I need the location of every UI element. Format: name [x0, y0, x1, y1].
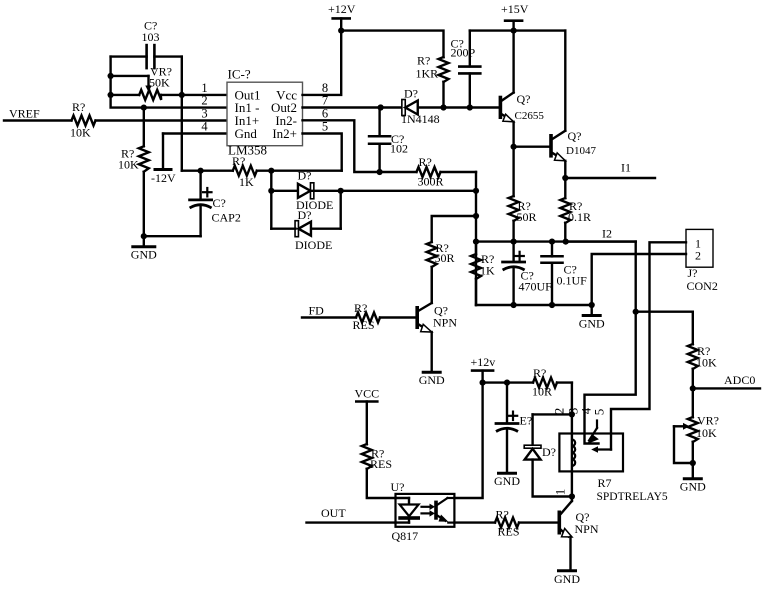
svg-text:DIODE: DIODE — [295, 238, 332, 252]
svg-text:0.1UF: 0.1UF — [557, 274, 588, 288]
connector J? CON2 — [686, 229, 718, 293]
svg-text:1N4148: 1N4148 — [401, 112, 440, 126]
resistor R? 1K (LM358 out) — [182, 154, 342, 189]
wire Out2 pin7 — [303, 106, 404, 108]
svg-text:VREF: VREF — [9, 107, 40, 121]
pin numbers 1-4 — [201, 81, 208, 134]
svg-text:10R: 10R — [532, 385, 552, 399]
junction dot +15V — [510, 28, 516, 34]
svg-text:50R: 50R — [435, 251, 455, 265]
junction dot CAP2 return — [141, 233, 147, 239]
svg-text:103: 103 — [142, 30, 160, 44]
resistor R? 0.1R — [560, 178, 591, 242]
resistor R? RES (FD) — [353, 301, 416, 332]
junction dot I1 — [562, 175, 568, 181]
svg-text:RES: RES — [498, 525, 520, 539]
svg-text:50K: 50K — [149, 76, 170, 90]
wire I2 vertical — [585, 242, 636, 444]
wire coil bottom — [571, 471, 573, 496]
node ADC0 — [693, 373, 760, 388]
svg-text:+15V: +15V — [501, 2, 529, 16]
wire FD collector — [431, 267, 433, 303]
svg-text:-12V: -12V — [151, 171, 176, 185]
svg-text:RES: RES — [370, 457, 392, 471]
wire +12v node — [483, 381, 533, 383]
svg-text:Q817: Q817 — [392, 529, 419, 543]
capacitor E? (electrolytic) — [496, 383, 532, 472]
resistor R? 10K (VREF series) — [4, 100, 227, 140]
svg-text:NPN: NPN — [575, 522, 599, 536]
svg-text:D?: D? — [298, 169, 312, 183]
ground GND (E cap) — [499, 472, 516, 475]
transistor Q? NPN (relay driver) — [558, 497, 599, 570]
diode D? DIODE (upper) — [271, 169, 476, 229]
power VCC — [354, 387, 379, 445]
wire +12V rail to 1KR — [341, 31, 443, 58]
wire opto collector pullup — [454, 383, 482, 498]
svg-text:D?: D? — [298, 208, 312, 222]
svg-text:R?: R? — [419, 155, 432, 169]
svg-text:RES: RES — [353, 318, 375, 332]
resistor R? 10K (to GND) — [118, 108, 149, 247]
node I2 — [566, 226, 636, 241]
svg-text:U?: U? — [391, 480, 405, 494]
svg-text:R?: R? — [417, 54, 430, 68]
power +12V — [328, 2, 356, 31]
resistor R? 1KR — [416, 54, 449, 108]
svg-text:Q?: Q? — [568, 129, 582, 143]
capacitor C? CAP2 — [144, 171, 241, 237]
svg-text:R?: R? — [354, 301, 367, 315]
svg-text:+12v: +12v — [471, 355, 496, 369]
resistor R? 50R (left) — [427, 241, 455, 302]
svg-text:5: 5 — [322, 120, 328, 134]
svg-text:GND: GND — [680, 480, 706, 494]
svg-text:C?: C? — [213, 196, 226, 210]
svg-text:R?: R? — [232, 154, 245, 168]
junction dots pin7 row — [378, 104, 384, 110]
svg-text:50R: 50R — [517, 210, 537, 224]
power -12V — [151, 134, 176, 186]
svg-text:300R: 300R — [418, 175, 444, 189]
transistor Q? NPN (FD) — [415, 303, 457, 371]
junction dots 1K output node — [268, 168, 274, 174]
ground GND (driver) — [559, 569, 576, 572]
svg-text:E?: E? — [520, 414, 533, 428]
resistor R? RES (base) — [454, 508, 557, 539]
resistor R? 10K (ADC0) — [688, 344, 717, 388]
svg-text:I1: I1 — [621, 161, 631, 175]
resistor R? 10R — [532, 366, 572, 399]
potentiometer VR? 50K — [111, 65, 227, 100]
relay R7 SPDTRELAY5 — [559, 421, 667, 504]
power +12v — [471, 355, 496, 383]
svg-text:0.1R: 0.1R — [568, 210, 591, 224]
wire main rail — [476, 240, 636, 242]
junction dot C2655 emitter node — [510, 144, 516, 150]
svg-text:C2655: C2655 — [515, 110, 545, 122]
svg-text:1K: 1K — [480, 264, 495, 278]
potentiometer VR? 10K — [674, 388, 719, 463]
svg-text:In2+: In2+ — [272, 126, 297, 141]
wire +15V rail — [470, 29, 566, 31]
svg-text:5: 5 — [592, 409, 607, 416]
resistor R? 1K (vertical) — [471, 242, 495, 305]
wire 50R-left branch — [432, 216, 476, 242]
svg-text:3: 3 — [201, 106, 207, 120]
svg-text:R?: R? — [72, 100, 85, 114]
svg-text:R?: R? — [496, 508, 509, 522]
op-amp IC-? LM358 — [227, 67, 303, 158]
capacitor C? 103 (feedback) — [111, 19, 182, 69]
capacitor C? 470UF — [503, 242, 553, 305]
svg-text:102: 102 — [390, 142, 408, 156]
svg-text:CAP2: CAP2 — [212, 211, 241, 225]
svg-text:D?: D? — [542, 445, 556, 459]
svg-text:10K: 10K — [696, 356, 717, 370]
svg-text:10K: 10K — [696, 426, 717, 440]
svg-text:Gnd: Gnd — [235, 126, 258, 141]
svg-text:CON2: CON2 — [687, 279, 718, 293]
capacitor C? 102 — [369, 108, 408, 173]
svg-text:GND: GND — [131, 248, 157, 262]
node I1 — [565, 161, 655, 179]
junction dot In1- / 10K — [141, 105, 147, 111]
resistor R? 300R — [417, 155, 477, 189]
svg-text:I2: I2 — [602, 226, 612, 240]
wire relay coil feed — [571, 383, 573, 434]
wire bottom rail — [476, 304, 592, 306]
junction dot CAP2 top — [198, 168, 204, 174]
wire zener top to coil — [533, 413, 572, 415]
svg-text:GND: GND — [494, 474, 520, 488]
junction dot coil bottom — [569, 493, 575, 499]
junction dot 50R branch — [473, 213, 479, 219]
wire pin8 Vcc — [303, 31, 342, 95]
wire ADC0 branch — [636, 312, 693, 345]
junction dot ADC0 branch — [633, 309, 639, 315]
svg-text:1K: 1K — [239, 175, 254, 189]
svg-text:+12V: +12V — [328, 2, 356, 16]
junction dots top-left loop — [108, 73, 114, 79]
pin numbers 8-5 — [322, 81, 328, 134]
power +15V — [501, 2, 529, 31]
junction dot VR wiper return — [690, 460, 696, 466]
svg-text:VCC: VCC — [354, 387, 379, 401]
ground GND (left divider) — [133, 245, 155, 248]
svg-text:NPN: NPN — [433, 316, 457, 330]
wire In2- pin6 — [303, 120, 417, 172]
junction dots rail — [473, 239, 479, 245]
svg-text:D?: D? — [404, 87, 418, 101]
wire 300R node vertical — [475, 172, 477, 305]
svg-text:10K: 10K — [70, 126, 91, 140]
svg-text:GND: GND — [579, 317, 605, 331]
capacitor C? 0.1UF — [542, 242, 588, 305]
transistor Q? D1047 — [514, 31, 597, 178]
svg-text:GND: GND — [554, 572, 580, 586]
optocoupler U? Q817 — [391, 480, 455, 543]
svg-text:SPDTRELAY5: SPDTRELAY5 — [597, 491, 668, 503]
resistor R? RES (VCC) — [362, 444, 396, 498]
junction dots bottom rail — [510, 302, 516, 308]
svg-text:1KR: 1KR — [416, 67, 439, 81]
svg-text:FD: FD — [309, 304, 325, 318]
wire CON2 pin1 — [611, 242, 686, 449]
svg-text:R?: R? — [533, 366, 546, 380]
junction dot coil top — [569, 411, 575, 417]
svg-text:200P: 200P — [451, 46, 476, 60]
svg-text:IC-?: IC-? — [228, 67, 251, 82]
ground GND (rail) — [579, 305, 605, 331]
wire In2+ pin5 — [303, 134, 342, 171]
diode D? DIODE (lower) — [271, 191, 340, 252]
svg-text:J?: J? — [688, 266, 698, 280]
node FD — [302, 304, 356, 318]
ground GND (FD) — [423, 371, 440, 374]
wire Gnd pin4 — [163, 132, 227, 134]
svg-text:2: 2 — [552, 408, 567, 415]
svg-text:1: 1 — [553, 489, 568, 496]
svg-text:10K: 10K — [118, 158, 139, 172]
svg-text:Q?: Q? — [517, 92, 531, 106]
svg-text:OUT: OUT — [321, 506, 346, 520]
resistor R? 50R (right) — [509, 147, 537, 242]
junction dot C102 bottom — [377, 169, 383, 175]
wire In1- loop left vertical — [111, 57, 227, 108]
node OUT — [307, 506, 396, 523]
svg-text:ADC0: ADC0 — [724, 373, 755, 387]
ground GND (VR) — [680, 463, 706, 494]
junction dot +12V rail — [338, 28, 344, 34]
junction dot ADC0 — [690, 385, 696, 391]
diode D? 1N4148 — [401, 87, 499, 127]
wire CON2 pin2 — [592, 254, 686, 305]
svg-text:470UF: 470UF — [519, 280, 553, 294]
junction dots +12v node — [480, 380, 486, 386]
svg-text:GND: GND — [419, 373, 445, 387]
junction dots diode pair — [268, 188, 274, 194]
wire Out1 feedback right vertical — [181, 57, 183, 171]
transistor Q? C2655 — [499, 31, 545, 147]
capacitor C? 200P — [451, 31, 481, 108]
svg-text:4: 4 — [201, 120, 208, 134]
svg-text:D1047: D1047 — [566, 145, 596, 157]
svg-text:2: 2 — [695, 249, 701, 263]
svg-text:R7: R7 — [598, 476, 612, 490]
diode D? (zener clamp) — [524, 414, 572, 496]
